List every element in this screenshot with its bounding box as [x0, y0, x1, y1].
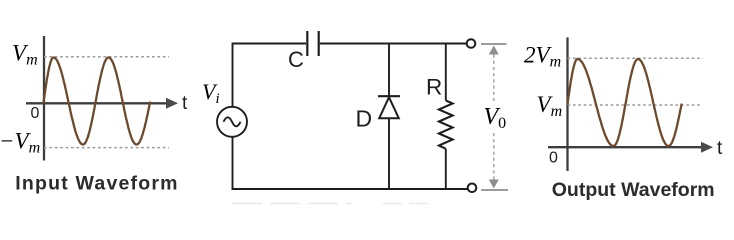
faint artifact line left: [232, 203, 352, 205]
svg-text:t: t: [182, 93, 188, 114]
svg-text:Input Waveform: Input Waveform: [15, 172, 178, 194]
svg-text:R: R: [426, 75, 442, 100]
resistor R1 zigzag: [439, 101, 453, 149]
svg-text:0: 0: [31, 105, 40, 122]
V0 measurement: dashed line upper: [493, 55, 495, 105]
capacitor C1 plates: [307, 31, 318, 56]
V0 measurement: top reference bar: [481, 43, 507, 45]
svg-text:Vm: Vm: [537, 92, 563, 120]
input Vm dashed gridline: [44, 56, 169, 58]
svg-text:Vm: Vm: [12, 41, 38, 69]
svg-text:Output Waveform: Output Waveform: [552, 179, 715, 201]
wire: source bottom to bottom rail: [232, 137, 234, 189]
input sine wave: [44, 58, 151, 145]
wire: top right segment (capacitor to output terminal): [320, 43, 467, 45]
svg-text:D: D: [356, 106, 373, 132]
svg-text:C: C: [288, 47, 304, 72]
wire: diode branch lower: [388, 118, 390, 189]
wire: resistor branch upper: [445, 43, 447, 101]
input vertical axis: [43, 36, 45, 161]
V0 measurement: down arrowhead: [489, 180, 499, 189]
diode D1: [378, 96, 400, 118]
svg-text:Vi: Vi: [202, 79, 220, 107]
input -Vm dashed gridline: [44, 147, 169, 149]
V0 measurement: up arrowhead: [489, 46, 499, 55]
wire: resistor branch lower: [445, 149, 447, 189]
output 2Vm dashed gridline: [568, 57, 704, 59]
output Vm dashed gridline: [568, 104, 702, 106]
faint artifact line right: [383, 203, 428, 205]
output terminal top: [467, 39, 476, 48]
svg-text:0: 0: [549, 150, 558, 167]
V0 measurement: bottom reference bar: [481, 189, 508, 191]
output horizontal t-axis: [548, 142, 713, 153]
input horizontal t-axis: [26, 98, 178, 109]
output terminal bottom: [468, 184, 477, 193]
svg-text:2Vm: 2Vm: [524, 43, 561, 71]
svg-text:t: t: [717, 138, 723, 159]
output sine wave: [568, 59, 682, 146]
wire: top left segment (source to capacitor): [233, 44, 307, 107]
svg-text:V0: V0: [484, 104, 507, 132]
svg-text:−Vm: −Vm: [0, 129, 40, 157]
ac source Vi: [217, 107, 247, 137]
output vertical axis: [566, 37, 568, 171]
wire: diode branch upper: [388, 43, 390, 97]
wire: bottom rail: [232, 188, 468, 190]
V0 measurement: dashed line lower: [493, 133, 495, 180]
